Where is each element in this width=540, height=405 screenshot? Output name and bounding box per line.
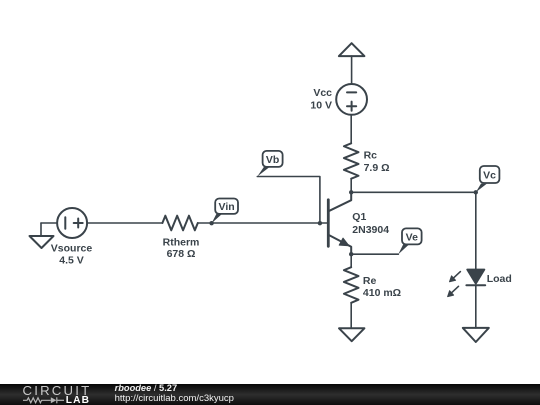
svg-text:http://circuitlab.com/c3kyucp: http://circuitlab.com/c3kyucp [115,393,234,404]
wire (Vb flag to base junction) [257,177,320,224]
svg-text:410 mΩ: 410 mΩ [363,287,401,299]
svg-text:2N3904: 2N3904 [352,224,389,236]
svg-text:Vsource: Vsource [51,243,93,255]
wire (Vc corner down to LED) [475,192,477,269]
wire (Rc to collector node) [350,179,352,193]
svg-text:Vc: Vc [483,170,496,182]
svg-text:Vin: Vin [219,201,235,213]
svg-text:Load: Load [487,273,512,285]
wire (collector node to Vc corner) [351,191,476,193]
footer bar [0,384,540,405]
label Vsource 4.5 V [51,243,93,267]
svg-text:Rc: Rc [364,150,378,162]
svg-text:Q1: Q1 [352,211,366,223]
label Vcc 10 V [310,87,332,111]
ground (below Re) [339,328,364,341]
label Rtherm 678 ohm [163,237,200,260]
wire (Rtherm to transistor base) [198,222,328,224]
svg-text:4.5 V: 4.5 V [59,255,84,267]
node (emitter junction) [349,252,353,256]
svg-text:10 V: 10 V [310,99,332,111]
svg-text:LAB: LAB [66,395,90,405]
transistor Q1 [328,192,351,254]
label Rc 7.9 ohm [364,150,390,174]
ground (left, at Vsource) [30,223,54,248]
svg-text:Ve: Ve [406,231,418,243]
voltage source Vsource [57,208,87,238]
resistor Rtherm [162,216,197,231]
node Ve [398,228,421,254]
svg-text:Vb: Vb [266,154,279,166]
wire (Vcc arrow to Vcc source) [351,56,353,84]
svg-text:Rtherm: Rtherm [163,237,200,249]
power Vcc symbol (up arrow) [339,43,365,56]
svg-text:Re: Re [363,275,377,287]
node Vb [257,151,322,226]
label Re 410 mohm [363,275,401,299]
wire (Vsource to Rtherm) [87,222,162,224]
label Q1 2N3904 [352,211,389,236]
wire (emitter to Ve flag) [351,253,398,255]
logo circuit glyph (resistor + diode wire) [23,397,64,403]
diode LED Load [448,270,486,297]
voltage source Vcc [336,84,367,115]
ground (below LED) [463,328,489,342]
wire (ground to Vsource left terminal) [41,222,57,224]
node Vc [474,166,500,195]
resistor Re [344,267,359,303]
svg-text:7.9 Ω: 7.9 Ω [364,162,390,174]
node Vin [209,199,238,226]
wire (Vcc source to Rc) [350,115,352,144]
svg-text:678 Ω: 678 Ω [167,248,196,260]
svg-text:Vcc: Vcc [313,87,332,99]
node (collector junction) [349,190,353,194]
svg-text:rboodee / 5.27: rboodee / 5.27 [115,383,178,393]
wire (emitter to Re) [350,254,352,267]
wire (LED to ground) [475,285,477,328]
resistor Rc [344,143,359,178]
wire (Re to ground) [350,303,352,329]
